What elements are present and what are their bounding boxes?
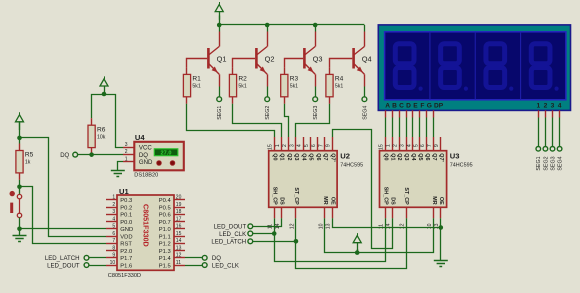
- svg-text:SH_CP: SH_CP: [271, 187, 277, 205]
- svg-text:U1: U1: [119, 187, 129, 196]
- junction OE/ground: [439, 225, 444, 230]
- svg-text:3: 3: [125, 142, 128, 148]
- wire R1 to U2.Q0: [187, 104, 275, 137]
- svg-text:P0.0: P0.0: [120, 220, 132, 226]
- svg-text:Q7': Q7': [438, 153, 444, 161]
- svg-text:R1: R1: [192, 76, 201, 83]
- svg-text:P1.7: P1.7: [120, 256, 132, 262]
- svg-text:Q2: Q2: [265, 54, 275, 63]
- svg-text:1: 1: [536, 103, 540, 110]
- svg-text:5: 5: [112, 224, 115, 230]
- svg-text:P0.1: P0.1: [120, 213, 132, 219]
- svg-text:19: 19: [176, 202, 182, 208]
- svg-text:5: 5: [304, 144, 310, 147]
- svg-text:13: 13: [176, 245, 182, 251]
- transistor Q4: [352, 32, 364, 87]
- svg-text:C8051F330D: C8051F330D: [108, 273, 141, 279]
- wire DQ to U1.P1.4: [185, 257, 202, 259]
- svg-text:ST_CP: ST_CP: [293, 187, 299, 205]
- wire MR net: U2.MR / U3.MR to +V: [325, 218, 434, 252]
- resistor R5: [16, 151, 34, 173]
- junction R5/VDD: [17, 136, 22, 141]
- svg-text:F: F: [420, 103, 424, 110]
- resistor R6: [88, 125, 106, 147]
- terminal SEG4 (driver): [362, 97, 367, 102]
- svg-text:MR: MR: [322, 196, 328, 204]
- svg-text:Q5: Q5: [308, 153, 314, 160]
- svg-text:14: 14: [176, 238, 182, 244]
- svg-text:P1.3: P1.3: [159, 249, 171, 255]
- terminal DQ (U1): [202, 255, 207, 260]
- svg-text:11: 11: [379, 224, 385, 229]
- push button S1: [10, 191, 22, 218]
- svg-text:12: 12: [289, 223, 295, 229]
- resistor R1 pins: [186, 67, 188, 103]
- svg-text:SEG2: SEG2: [543, 156, 549, 170]
- svg-text:SEG3: SEG3: [550, 156, 556, 170]
- ground (U4): [111, 171, 125, 177]
- wire GND net: button bottom to U1.GND: [20, 228, 107, 230]
- svg-text:LED_CLK: LED_CLK: [212, 262, 239, 269]
- svg-text:4: 4: [112, 216, 115, 222]
- svg-text:DS: DS: [279, 197, 285, 205]
- shift register U2 74HC595: [268, 137, 338, 229]
- svg-text:2: 2: [125, 149, 128, 155]
- svg-text:8: 8: [112, 245, 115, 251]
- svg-text:15: 15: [176, 231, 182, 237]
- wire R5 top: [19, 122, 21, 144]
- svg-text:Q4: Q4: [362, 54, 372, 63]
- svg-text:U4: U4: [135, 133, 145, 142]
- svg-text:3: 3: [399, 144, 405, 147]
- resistor R5 pins: [19, 144, 21, 180]
- svg-text:Q6: Q6: [315, 153, 321, 160]
- terminal LED_DOUT (U1): [84, 263, 89, 268]
- wire LED_LATCH to U1.P1.7: [89, 257, 106, 259]
- svg-text:DS18B20: DS18B20: [134, 173, 158, 179]
- mcu U1 C8051F330D: [106, 195, 185, 271]
- wire R3 to U2.Q2: [285, 104, 289, 137]
- svg-text:2: 2: [544, 103, 548, 110]
- wire R2 to U2.Q1: [233, 104, 282, 137]
- svg-text:16: 16: [176, 224, 182, 230]
- junction power arrow: [102, 92, 107, 97]
- wire Q1 emitter: [219, 87, 221, 97]
- svg-text:R2: R2: [238, 76, 247, 83]
- svg-text:LED_LATCH: LED_LATCH: [45, 255, 80, 262]
- svg-text:13: 13: [326, 223, 332, 229]
- svg-text:9: 9: [326, 144, 332, 147]
- svg-text:DQ: DQ: [139, 152, 148, 159]
- wires display segments to U3: [386, 110, 434, 137]
- svg-text:2: 2: [112, 202, 115, 208]
- svg-text:3: 3: [289, 144, 295, 147]
- wire Q1 base to R1: [187, 59, 208, 68]
- svg-text:LED_CLK: LED_CLK: [219, 231, 246, 238]
- svg-text:20: 20: [176, 195, 182, 201]
- svg-text:7: 7: [427, 144, 433, 147]
- wire LED_CLK to U2.SH_CP and U3.SH_CP: [253, 218, 386, 261]
- svg-text:1: 1: [112, 195, 115, 201]
- resistor R4 pins: [329, 67, 331, 103]
- wire Q3 emitter: [315, 87, 317, 97]
- svg-text:74HC595: 74HC595: [450, 162, 473, 168]
- svg-text:15: 15: [268, 144, 274, 150]
- junction MR: [355, 250, 360, 255]
- junction LED_CLK: [272, 231, 277, 236]
- svg-text:R4: R4: [335, 76, 344, 83]
- svg-text:3: 3: [112, 209, 115, 215]
- svg-text:Q7: Q7: [322, 153, 328, 160]
- svg-text:Q5: Q5: [417, 153, 423, 160]
- svg-text:G: G: [427, 103, 432, 110]
- display segment pin labels: [385, 103, 562, 110]
- svg-text:1: 1: [385, 144, 391, 147]
- svg-text:SEG1: SEG1: [536, 156, 542, 170]
- transistor Q1: [207, 32, 219, 87]
- svg-text:Q1: Q1: [389, 153, 395, 160]
- svg-text:Q6: Q6: [424, 153, 430, 160]
- svg-text:Q0: Q0: [271, 153, 277, 160]
- svg-text:9: 9: [434, 144, 440, 147]
- svg-text:18: 18: [176, 209, 182, 215]
- wire R5 bottom to button: [19, 180, 21, 194]
- wire Q2 collector from rail: [267, 25, 269, 32]
- svg-text:6: 6: [311, 144, 317, 147]
- terminal SEG3 (driver): [313, 97, 318, 102]
- transistor Q2: [255, 32, 267, 87]
- svg-text:5k1: 5k1: [238, 84, 246, 90]
- svg-text:7: 7: [318, 144, 324, 147]
- svg-text:P1.1: P1.1: [159, 234, 171, 240]
- resistor R2 pins: [232, 67, 234, 103]
- wire button bottom: [19, 218, 21, 229]
- power symbol +V (R5): [16, 112, 24, 130]
- wire +V rail: [219, 16, 221, 26]
- wires display digits to SEG terminals: [539, 110, 560, 146]
- junction button/GND: [17, 227, 22, 232]
- svg-text:1: 1: [275, 144, 281, 147]
- wire VDD net: R5 top to U1.VDD: [20, 138, 107, 237]
- svg-text:P1.2: P1.2: [159, 242, 171, 248]
- svg-text:P0.5: P0.5: [159, 205, 171, 211]
- svg-text:E: E: [413, 103, 418, 110]
- terminal SEG3 (display): [550, 147, 555, 152]
- ground (OE): [434, 261, 448, 267]
- svg-text:5: 5: [413, 144, 419, 147]
- display LED1 4-digit 7-segment: [378, 25, 570, 111]
- svg-text:2: 2: [392, 144, 398, 147]
- wire U4 GND to ground: [118, 162, 124, 171]
- junction LED_LATCH: [294, 239, 299, 244]
- svg-text:4: 4: [406, 144, 412, 147]
- terminal LED_CLK (U1): [202, 263, 207, 268]
- svg-text:LED_DOUT: LED_DOUT: [47, 262, 80, 269]
- svg-text:5k1: 5k1: [335, 84, 343, 90]
- svg-text:P0.4: P0.4: [159, 198, 172, 204]
- svg-text:Q3: Q3: [293, 153, 299, 160]
- svg-text:B: B: [392, 103, 397, 110]
- resistor R1: [183, 74, 201, 96]
- wire U2.Q7' to U3.DS (serial chain): [333, 130, 393, 249]
- svg-text:1k: 1k: [25, 160, 31, 166]
- power symbol +V (U4): [100, 76, 108, 94]
- resistor R3: [281, 74, 299, 96]
- resistor R6 pins: [91, 118, 93, 153]
- svg-text:MR: MR: [431, 196, 437, 204]
- wire Q4 base to R4: [330, 59, 353, 68]
- svg-text:4: 4: [297, 144, 303, 147]
- terminal SEG1 (driver): [217, 97, 222, 102]
- svg-text:10: 10: [110, 260, 116, 266]
- svg-text:Q0: Q0: [382, 153, 388, 160]
- terminal DQ (left): [73, 152, 78, 157]
- svg-text:P0.3: P0.3: [120, 198, 132, 204]
- svg-text:R3: R3: [290, 76, 299, 83]
- svg-text:P1.0: P1.0: [159, 227, 171, 233]
- svg-text:DQ: DQ: [60, 153, 69, 159]
- svg-text:12: 12: [176, 253, 182, 259]
- svg-text:VDD: VDD: [120, 234, 132, 240]
- svg-text:DS: DS: [389, 197, 395, 205]
- wire arrow to MR net: [357, 249, 359, 253]
- svg-text:OE: OE: [329, 197, 335, 205]
- resistor R4: [326, 74, 344, 96]
- terminal SEG2 (driver): [265, 97, 270, 102]
- svg-text:GND: GND: [120, 227, 133, 233]
- svg-text:5k1: 5k1: [290, 84, 298, 90]
- svg-text:C: C: [399, 103, 404, 110]
- svg-text:P0.2: P0.2: [120, 205, 132, 211]
- wire VCC branch: [92, 95, 124, 148]
- wire Q4 collector from rail: [364, 25, 366, 32]
- svg-text:D: D: [406, 103, 411, 110]
- svg-text:6: 6: [420, 144, 426, 147]
- svg-text:15: 15: [379, 144, 385, 150]
- wire LED_LATCH to U2.ST_CP and U3.ST_CP: [253, 218, 407, 268]
- wire LED_DOUT to U2.DS: [253, 218, 282, 226]
- wire LED_DOUT to U1.P1.6: [89, 265, 106, 267]
- svg-text:P0.7: P0.7: [159, 220, 171, 226]
- wire LED_CLK to U1.P1.5: [185, 265, 202, 267]
- svg-text:74HC595: 74HC595: [340, 162, 363, 168]
- terminal SEG1 (display): [536, 147, 541, 152]
- svg-text:Q4: Q4: [300, 153, 306, 160]
- svg-text:SEG4: SEG4: [362, 106, 368, 120]
- svg-text:P2.0: P2.0: [120, 249, 132, 255]
- resistor R2: [229, 74, 247, 96]
- svg-text:P0.6: P0.6: [159, 213, 171, 219]
- svg-text:10: 10: [318, 223, 324, 229]
- svg-text:C8051F330D: C8051F330D: [141, 204, 150, 247]
- svg-text:P1.5: P1.5: [159, 263, 171, 269]
- resistor R3 pins: [284, 67, 286, 103]
- svg-text:Q7': Q7': [329, 153, 335, 161]
- svg-text:VCC: VCC: [139, 145, 152, 152]
- svg-text:2: 2: [282, 144, 288, 147]
- svg-text:SH_CP: SH_CP: [382, 187, 388, 205]
- svg-text:LED_DOUT: LED_DOUT: [214, 224, 247, 231]
- svg-text:SEG4: SEG4: [558, 156, 564, 170]
- svg-text:P1.4: P1.4: [159, 256, 172, 262]
- wire RST net: button top to U1.RST: [20, 187, 107, 244]
- svg-text:3: 3: [551, 103, 555, 110]
- svg-text:Q3: Q3: [313, 54, 323, 63]
- svg-text:27.0: 27.0: [161, 150, 172, 156]
- svg-text:Q3: Q3: [403, 153, 409, 160]
- wire OE net: U2.OE / U3.OE to ground: [333, 218, 441, 260]
- wire Q2 emitter: [267, 87, 269, 97]
- svg-text:1: 1: [125, 156, 128, 162]
- svg-text:R5: R5: [25, 152, 34, 159]
- svg-text:A: A: [385, 103, 390, 110]
- terminal LED_CLK (U2): [248, 231, 253, 236]
- svg-text:U3: U3: [450, 151, 460, 160]
- svg-text:9: 9: [112, 253, 115, 259]
- wire Q3 collector from rail: [315, 25, 317, 32]
- junction rail Q2: [265, 23, 270, 28]
- svg-text:Q2: Q2: [286, 153, 292, 160]
- svg-text:10: 10: [427, 223, 433, 229]
- terminal LED_LATCH (U1): [84, 255, 89, 260]
- wire Q2 base to R2: [233, 59, 256, 68]
- svg-text:6: 6: [112, 231, 115, 237]
- svg-text:SEG3: SEG3: [313, 106, 319, 120]
- svg-text:Q1: Q1: [279, 153, 285, 160]
- svg-text:Q1: Q1: [217, 54, 227, 63]
- svg-text:OE: OE: [438, 197, 444, 205]
- terminal SEG4 (display): [557, 147, 562, 152]
- ground (button): [13, 236, 27, 242]
- svg-text:12: 12: [399, 223, 405, 229]
- svg-text:4: 4: [558, 103, 562, 110]
- power symbol +V (rail): [215, 2, 223, 20]
- svg-text:SEG2: SEG2: [265, 106, 271, 120]
- wire Q3 base to R3: [285, 59, 304, 68]
- terminal SEG2 (display): [543, 147, 548, 152]
- sensor U4 DS18B20: [123, 142, 184, 171]
- junction R6/DQ: [89, 152, 94, 157]
- svg-text:11: 11: [176, 260, 181, 266]
- power symbol +V (MR): [353, 233, 361, 251]
- svg-text:5k1: 5k1: [192, 84, 200, 90]
- wire R4 to U2.Q3: [296, 104, 330, 137]
- svg-text:10k: 10k: [97, 134, 106, 140]
- wire Q1 collector from rail: [219, 25, 221, 32]
- svg-text:P1.6: P1.6: [120, 263, 132, 269]
- shift register U3 74HC595: [379, 137, 447, 229]
- wire Q4 emitter: [364, 87, 366, 97]
- svg-text:Q2: Q2: [396, 153, 402, 160]
- wire to ground: [19, 229, 21, 236]
- svg-text:14: 14: [385, 223, 391, 229]
- svg-text:7: 7: [112, 238, 115, 244]
- terminal LED_LATCH (U2): [248, 239, 253, 244]
- svg-text:SEG1: SEG1: [217, 106, 223, 120]
- svg-text:R6: R6: [97, 126, 106, 133]
- svg-text:GND: GND: [139, 159, 153, 166]
- svg-text:U2: U2: [340, 151, 350, 160]
- terminal LED_DOUT (U2): [248, 224, 253, 229]
- svg-text:17: 17: [176, 216, 182, 222]
- svg-text:Q7: Q7: [431, 153, 437, 160]
- svg-text:ST_CP: ST_CP: [403, 187, 409, 205]
- svg-text:RST: RST: [120, 242, 132, 248]
- junction rail Q3: [313, 23, 318, 28]
- svg-text:LED_LATCH: LED_LATCH: [211, 239, 246, 246]
- transistor Q3: [303, 32, 315, 87]
- junction R5/button/RST: [17, 185, 22, 190]
- junction rail Q1: [217, 23, 222, 28]
- wire DQ to U4 pin2: [78, 154, 123, 156]
- svg-text:DP: DP: [434, 103, 444, 110]
- svg-text:DQ: DQ: [212, 255, 221, 262]
- svg-text:Q4: Q4: [410, 153, 416, 160]
